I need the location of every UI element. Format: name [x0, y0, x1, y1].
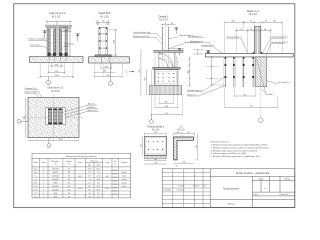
svg-text:Marka: Marka — [33, 162, 38, 164]
svg-text:S355: S355 — [113, 174, 117, 176]
svg-text:1,9: 1,9 — [97, 182, 99, 184]
svg-text:Tehniskie noteikumi:: Tehniskie noteikumi: — [211, 141, 230, 144]
flange thickness dim at left end — [193, 49, 203, 54]
VIEW A : anchor-bolt group section — [46, 20, 72, 56]
svg-text:5-80: 5-80 — [164, 106, 168, 108]
dim tier 3 — [40, 76, 73, 78]
svg-text:Sv.urb.: Sv.urb. — [122, 171, 128, 174]
SMALL VIEW L plate with holes — [145, 132, 167, 136]
svg-text:30,8: 30,8 — [97, 179, 100, 181]
svg-text:M16: M16 — [78, 188, 81, 190]
VIEW C left labels — [133, 31, 162, 44]
centre spacer strip — [56, 28, 60, 55]
gusset plate above flange — [254, 26, 260, 53]
svg-text:mm: mm — [54, 163, 57, 165]
dims below view A — [40, 63, 73, 78]
table header texts — [33, 160, 127, 167]
VIEW D : Skats C-C title — [247, 9, 259, 16]
svg-text:40,5: 40,5 — [97, 189, 100, 191]
VIEW C axis bubble — [149, 115, 153, 124]
svg-text:200x75: 200x75 — [53, 172, 59, 174]
svg-text:95: 95 — [265, 21, 267, 23]
svg-text:S355: S355 — [113, 191, 117, 193]
svg-text:2: 2 — [43, 172, 44, 174]
VIEW D left leader labels — [187, 77, 226, 96]
top chord flange — [206, 54, 294, 57]
SMALL VIEW L left dim — [141, 136, 143, 155]
svg-text:M 1:20: M 1:20 — [52, 14, 61, 18]
svg-text:40: 40 — [171, 23, 173, 25]
svg-text:0,9: 0,9 — [88, 182, 90, 184]
svg-text:230: 230 — [232, 21, 235, 23]
svg-text:40: 40 — [176, 166, 178, 168]
VIEW D bottom dims — [225, 87, 278, 108]
VIEW B : Skats title — [99, 11, 111, 18]
svg-text:Q lapu d.vfl. 1: Q lapu d.vfl. 1 — [279, 194, 289, 196]
svg-text:Studiju projekts - grafiskā da: Studiju projekts - grafiskā daļa — [236, 172, 270, 175]
svg-text:380: 380 — [105, 66, 108, 68]
VIEW C anchor comb below plan — [149, 85, 182, 94]
svg-text:4: 4 — [43, 176, 44, 178]
svg-text:2: 2 — [43, 193, 44, 195]
svg-text:C: C — [126, 71, 128, 74]
svg-text:230: 230 — [273, 21, 276, 23]
svg-text:Piezīmes: Piezīmes — [121, 161, 128, 164]
svg-text:M12: M12 — [78, 176, 81, 178]
svg-text:0,7: 0,7 — [88, 196, 90, 198]
dim ticks view A — [39, 65, 73, 77]
VIEW E bottom dim — [28, 140, 79, 142]
VIEW C lower plate elevation — [153, 67, 180, 69]
footing strip under view B — [89, 57, 130, 63]
svg-text:115,4: 115,4 — [96, 169, 100, 171]
svg-text:Pz-1: Pz-1 — [34, 169, 38, 171]
svg-text:95: 95 — [250, 21, 252, 23]
svg-text:M 1:20: M 1:20 — [100, 14, 109, 18]
svg-text:Sv.urb.: Sv.urb. — [122, 181, 128, 184]
svg-text:3. Metināto šuvju katetes garu: 3. Metināto šuvju katetes garums k=5mm, … — [211, 149, 259, 152]
tower 1 — [48, 28, 56, 55]
SMALL VIEW R angle shape — [174, 137, 194, 160]
VIEW C left dims — [141, 49, 147, 94]
svg-text:450: 450 — [67, 186, 70, 188]
VIEW D left label stack — [188, 35, 223, 53]
label: starplika (right mid) — [61, 42, 75, 49]
VIEW D axis bubble — [259, 57, 264, 122]
svg-text:700x700: 700x700 — [52, 169, 59, 171]
svg-text:100: 100 — [177, 132, 180, 134]
svg-text:Tērauda detaļa 1: Tērauda detaļa 1 — [147, 126, 165, 129]
label: starplika (left upper) — [29, 38, 50, 50]
title block left grid — [162, 169, 210, 208]
tie bolt marks — [99, 28, 107, 49]
svg-text:gab.: gab. — [88, 165, 92, 167]
svg-text:1,4: 1,4 — [97, 196, 99, 198]
dim tier 2 — [49, 71, 65, 73]
svg-text:V. Uzvārds: V. Uzvārds — [176, 188, 184, 191]
svg-text:750: 750 — [67, 176, 70, 178]
svg-text:K-1: K-1 — [34, 193, 37, 195]
svg-text:300: 300 — [165, 102, 168, 104]
VIEW D detala 1 callout — [262, 89, 274, 96]
svg-text:Izstrādāja: Izstrādāja — [164, 188, 171, 191]
column outline — [99, 27, 107, 55]
VIEW B : laced column elevation — [96, 22, 110, 55]
anchor bolt towers — [48, 26, 68, 56]
svg-text:1-1: 1-1 — [179, 127, 183, 129]
svg-text:1100: 1100 — [55, 75, 59, 77]
svg-text:1100: 1100 — [24, 116, 26, 120]
svg-text:163,4: 163,4 — [105, 188, 109, 190]
VIEW C seat line to bolt — [168, 47, 183, 49]
VIEW D labels above flange — [226, 36, 288, 56]
svg-text:60: 60 — [68, 172, 70, 174]
svg-text:kopā: kopā — [97, 164, 101, 167]
svg-text:600: 600 — [154, 159, 157, 161]
svg-text:150: 150 — [243, 94, 246, 96]
svg-text:700: 700 — [154, 162, 157, 164]
svg-text:Betonēšanas detaļu specifikāci: Betonēšanas detaļu specifikācija — [66, 155, 97, 158]
svg-text:420: 420 — [55, 71, 58, 73]
SMALL VIEW L bottom dims — [145, 161, 167, 164]
svg-text:Stadija: Stadija — [258, 178, 263, 181]
svg-text:600: 600 — [103, 71, 106, 73]
svg-text:1. Metāla konstrukcijām jāatbi: 1. Metāla konstrukcijām jāatbilst prasīb… — [211, 144, 269, 147]
svg-text:Torņa pamatne: Torņa pamatne — [223, 188, 240, 191]
VIEW C dims below — [151, 53, 182, 116]
svg-text:700: 700 — [67, 179, 70, 181]
bolt at plate right — [179, 48, 181, 55]
svg-text:1,9: 1,9 — [97, 193, 99, 195]
SMALL VIEW R top dim — [174, 132, 195, 137]
svg-text:Tēr. detaļa L-1: Tēr. detaļa L-1 — [278, 81, 290, 84]
SMALL VIEW R : channel 1-1 title — [177, 127, 185, 132]
right vertical dim of column — [107, 29, 116, 56]
svg-text:620: 620 — [139, 70, 141, 73]
view A centerline — [56, 23, 58, 64]
svg-text:300: 300 — [55, 64, 58, 66]
pedestal outline — [47, 27, 70, 56]
svg-text:S355: S355 — [113, 194, 117, 196]
svg-text:Masa, kg: Masa, kg — [91, 160, 98, 162]
brace axis through P3 — [256, 58, 266, 93]
svg-text:kl.: kl. — [114, 163, 116, 165]
svg-text:60x6: 60x6 — [54, 196, 58, 198]
dims below view B — [94, 63, 122, 77]
column tie rungs — [99, 34, 107, 48]
svg-text:80: 80 — [188, 132, 190, 134]
svg-text:240: 240 — [196, 145, 198, 148]
svg-text:7,4: 7,4 — [97, 172, 99, 174]
VIEW E anchor group plan — [46, 108, 66, 125]
weld marks at plate tops — [225, 57, 254, 59]
VIEW E footing plan — [28, 98, 79, 138]
svg-text:150: 150 — [188, 71, 190, 74]
svg-text:7,8: 7,8 — [88, 179, 90, 181]
VIEW C gusset box with curved ribs — [159, 52, 174, 67]
svg-text:5. Skrūvēm M20 lietot uzgriežņ: 5. Skrūvēm M20 lietot uzgriežņus un papl… — [211, 155, 261, 158]
VIEW D top dims — [225, 21, 283, 53]
bolt hole dots in plan — [158, 73, 175, 82]
svg-text:PL-2: PL-2 — [34, 186, 38, 188]
level mark left of view A — [43, 31, 47, 38]
TITLE BLOCK — [162, 169, 295, 208]
svg-text:2: 2 — [43, 196, 44, 198]
SPEC TABLE — [32, 153, 131, 198]
VIEW D right leader label — [266, 81, 290, 85]
svg-text:mm: mm — [68, 163, 71, 165]
svg-text:PL-1: PL-1 — [34, 182, 38, 184]
VIEW C : Detala 1 title — [158, 15, 169, 22]
label: ankurs (right upper) — [59, 26, 71, 32]
svg-text:700: 700 — [250, 106, 253, 108]
svg-text:S355: S355 — [113, 170, 117, 172]
SMALL VIEW R bottom dim — [174, 162, 194, 164]
VIEW E left dim — [25, 98, 27, 138]
svg-text:Detaļa 1: Detaļa 1 — [267, 93, 274, 96]
VIEW C right flare rib — [174, 52, 177, 67]
svg-text:30: 30 — [68, 169, 70, 171]
svg-text:700x100: 700x100 — [52, 179, 59, 181]
svg-text:4: 4 — [43, 186, 44, 188]
svg-text:60: 60 — [97, 21, 99, 23]
svg-text:PL-3: PL-3 — [34, 189, 38, 191]
VIEW C upper plate elevation — [154, 50, 183, 52]
svg-text:60: 60 — [68, 196, 70, 198]
svg-text:700: 700 — [154, 132, 157, 134]
svg-text:60: 60 — [241, 29, 243, 31]
VIEW E bottom axis bubble — [47, 138, 51, 148]
svg-text:1: 1 — [43, 169, 44, 171]
svg-text:L-2: L-2 — [34, 179, 37, 181]
svg-text:140: 140 — [102, 21, 105, 23]
VIEW E : Griezums 1-1 title — [47, 86, 64, 93]
svg-text:400: 400 — [145, 78, 147, 81]
table row lines — [32, 170, 131, 194]
svg-text:Garums: Garums — [66, 161, 72, 163]
svg-text:S355: S355 — [113, 187, 117, 189]
weld triangles at gusset base — [252, 51, 254, 53]
VIEW E top-left labels — [25, 87, 48, 111]
section arrow C — [126, 71, 134, 74]
VIEW D left vertical dim — [206, 57, 224, 85]
footing strip under view A — [30, 57, 84, 63]
svg-text:2: 2 — [43, 182, 44, 184]
P2 bolt nubs — [243, 64, 254, 78]
P1 bolt nubs — [225, 64, 235, 78]
svg-text:Sv.urb.: Sv.urb. — [122, 185, 128, 188]
axis bubble below view B — [108, 63, 112, 85]
svg-text:10,1: 10,1 — [88, 186, 91, 188]
svg-text:M 1:10: M 1:10 — [249, 12, 258, 16]
svg-text:Tēr.: Tēr. — [114, 160, 117, 163]
svg-text:2. Metāla konstrukciju virsmas: 2. Metāla konstrukciju virsmas attīrīt u… — [211, 146, 270, 149]
sheet border frame — [14, 4, 295, 208]
svg-text:4: 4 — [43, 179, 44, 181]
svg-text:M 1:20: M 1:20 — [51, 89, 60, 93]
svg-text:Kopā: Kopā — [105, 161, 109, 164]
svg-text:ss: ss — [264, 188, 266, 190]
svg-text:450: 450 — [67, 189, 70, 191]
svg-text:450x160: 450x160 — [52, 186, 59, 188]
column base plate — [95, 55, 112, 57]
hatched bolt bars — [48, 29, 67, 52]
VIEW D far-left dim chain — [189, 57, 191, 86]
svg-text:80x8: 80x8 — [54, 193, 58, 195]
svg-text:0,9: 0,9 — [88, 193, 90, 195]
VIEW D hanging plate P3 hatched — [256, 57, 267, 87]
bolt shanks into footing — [49, 56, 66, 61]
VIEW E left axis bubble — [17, 119, 28, 123]
table verticals — [39, 158, 118, 198]
bolt head domes — [48, 26, 68, 28]
tower 2 — [60, 28, 68, 55]
svg-text:40,5: 40,5 — [97, 186, 100, 188]
VIEW D hanging cleat pair P1 — [224, 57, 236, 87]
VIEW C : pipe stub — [162, 24, 176, 51]
top dim line with bolt circles — [96, 21, 110, 23]
VIEW D hanging cleat pair P2 — [242, 57, 254, 87]
svg-text:Šķērsgriez.: Šķērsgriez. — [51, 160, 60, 163]
anchor nut blobs — [48, 53, 68, 56]
svg-text:Lapa: Lapa — [254, 194, 258, 196]
svg-text:450x160: 450x160 — [52, 189, 59, 191]
VIEW A : Griezums 2-2 title — [49, 11, 66, 18]
svg-text:80: 80 — [68, 182, 70, 184]
svg-text:80x8: 80x8 — [54, 182, 58, 184]
svg-text:4. Urbumu diametrs d=22mm, sk.: 4. Urbumu diametrs d=22mm, sk. M20; — [211, 152, 247, 155]
table data rows — [34, 169, 128, 199]
svg-text:Pz-2: Pz-2 — [34, 172, 38, 174]
svg-text:700: 700 — [140, 144, 142, 147]
svg-text:S355: S355 — [113, 184, 117, 186]
svg-text:Mērogi: Mērogi — [228, 203, 235, 206]
svg-text:27,4: 27,4 — [97, 176, 100, 178]
VIEW C plan of base plate — [154, 70, 178, 86]
anchor bolts below base plate B — [101, 57, 110, 62]
VIEW C right labels — [168, 34, 199, 47]
svg-text:3,7: 3,7 — [88, 172, 90, 174]
top template plate — [46, 25, 72, 27]
svg-text:440: 440 — [165, 113, 168, 115]
svg-text:6,9: 6,9 — [88, 176, 90, 178]
svg-text:Mērogs: Mērogs — [285, 178, 291, 181]
svg-text:80: 80 — [68, 193, 70, 195]
svg-text:240: 240 — [183, 162, 186, 164]
svg-text:skava: skava — [64, 46, 70, 48]
svg-text:L100x100: L100x100 — [52, 176, 59, 178]
svg-text:M 1:10: M 1:10 — [159, 18, 168, 22]
dim ticks view D — [224, 22, 283, 32]
VIEW C level mark — [174, 28, 178, 34]
svg-text:76: 76 — [164, 23, 166, 25]
level mark on flange left end — [206, 50, 210, 52]
svg-text:10,1: 10,1 — [88, 189, 91, 191]
svg-text:900: 900 — [107, 75, 110, 77]
svg-text:dat.: dat. — [203, 185, 206, 188]
svg-text:115,4: 115,4 — [88, 169, 92, 171]
VIEW E centerlines — [22, 117, 83, 119]
svg-text:4: 4 — [43, 189, 44, 191]
top dim texts — [97, 21, 110, 23]
svg-text:1100: 1100 — [58, 139, 62, 141]
top dim line — [46, 21, 72, 23]
dim tier 1 — [52, 65, 62, 67]
svg-text:L-1: L-1 — [34, 176, 37, 178]
svg-text:Klase: Klase — [78, 162, 82, 164]
svg-text:Sv.urb.: Sv.urb. — [122, 175, 128, 178]
svg-text:Sv.urb.: Sv.urb. — [122, 178, 128, 181]
svg-text:K-2: K-2 — [34, 196, 37, 198]
level mark right of view A — [76, 34, 80, 41]
axis bubble below view A — [46, 77, 50, 85]
svg-text:46,1: 46,1 — [106, 176, 109, 178]
NOTES : Tehniskie noteikumi — [211, 141, 270, 159]
svg-text:Paraksts: Paraksts — [193, 185, 200, 188]
svg-text:1500: 1500 — [114, 40, 116, 44]
SMALL VIEW L : Terauda detala 1 title — [147, 126, 165, 132]
svg-text:Skaits: Skaits — [41, 161, 46, 164]
svg-text:30: 30 — [250, 29, 252, 31]
svg-text:Uzvārds: Uzvārds — [178, 185, 184, 188]
SMALL VIEW L hatched edge — [145, 156, 167, 159]
svg-text:60: 60 — [107, 21, 109, 23]
SMALL VIEW R right dim — [197, 134, 199, 160]
VIEW E right leader labels — [62, 103, 99, 117]
svg-text:S355: S355 — [113, 177, 117, 179]
title block texts — [164, 185, 207, 192]
svg-text:60: 60 — [264, 29, 266, 31]
svg-text:S355: S355 — [113, 180, 117, 182]
